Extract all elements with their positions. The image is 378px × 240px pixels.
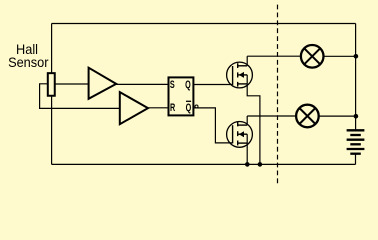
battery BT1 — [347, 130, 365, 164]
label Hall Sensor — [8, 42, 49, 71]
node junction M2 source/bottom rail — [245, 162, 250, 167]
transistor M2 (n-MOSFET) — [227, 116, 253, 164]
wire lamp2 to rail — [319, 115, 356, 117]
svg-text:R: R — [170, 102, 176, 114]
lamp L1 — [301, 45, 324, 68]
transistor M1 (n-MOSFET) — [227, 56, 260, 164]
wire buffer2 to latch R — [148, 107, 169, 109]
wire latch Q to M1 gate — [193, 84, 232, 86]
node junction lamp2/rail — [354, 114, 359, 119]
dashed separator line — [277, 5, 279, 184]
wire left vertical branch — [51, 24, 53, 165]
wire resistor left bracket to buffer2 input — [40, 84, 120, 109]
Qbar overline — [186, 100, 191, 102]
node junction M1 source/bottom rail — [258, 162, 263, 167]
svg-text:Q: Q — [186, 102, 192, 114]
buffer U1 (triangle amplifier) — [89, 68, 117, 99]
buffer U2 (triangle amplifier) — [120, 92, 148, 124]
wire top rail — [52, 23, 356, 25]
wire buffer1 to latch S — [116, 83, 168, 85]
svg-text:Q: Q — [185, 79, 191, 91]
resistor (hall sensor element) — [48, 73, 55, 96]
wire resistor to buffer1 input — [56, 83, 89, 85]
wire M2 drain to lamp2 — [247, 115, 296, 117]
lamp L2 — [296, 105, 319, 128]
inverter bubble on Qbar output — [195, 105, 198, 108]
node junction lamp1/rail — [354, 54, 359, 59]
wire right rail — [355, 24, 357, 130]
latch U3 (S-R flip-flop box) — [169, 77, 194, 115]
svg-text:Sensor: Sensor — [8, 54, 49, 70]
wire latch Qbar to M2 gate — [193, 108, 232, 143]
wire bottom rail — [52, 163, 356, 165]
wire M1 drain to lamp1 — [247, 55, 301, 57]
svg-text:S: S — [170, 79, 175, 91]
wire lamp1 to rail — [324, 55, 356, 57]
